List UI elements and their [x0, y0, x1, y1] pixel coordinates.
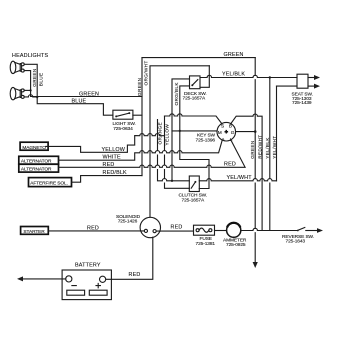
svg-text:RED: RED	[87, 225, 99, 231]
wire RED from alternator2 to key switch L diagonal	[59, 141, 245, 168]
svg-text:MAGNETO: MAGNETO	[22, 145, 46, 151]
wire BLUE: headlight1 top terminal right, down, to blue run	[24, 64, 37, 97]
svg-text:GREEN: GREEN	[32, 68, 37, 86]
wire battery negative with left arrow	[17, 276, 66, 281]
svg-text:RED: RED	[224, 161, 236, 167]
wire YEL/WHT right vertical	[276, 86, 278, 181]
headlight lamp 1	[10, 61, 24, 73]
junction headlight blue	[36, 96, 38, 98]
wire key G to GREEN right vertical	[236, 131, 256, 133]
wire seat switch lower input from YEL/WHT vertical	[277, 85, 298, 87]
wire key M diagonal to white row	[172, 130, 217, 132]
light switch LIGHT SW 725-0634	[113, 110, 133, 119]
MAGNETO box	[20, 142, 48, 151]
svg-text:YELLOW: YELLOW	[165, 124, 170, 146]
svg-text:B: B	[229, 123, 232, 129]
fuse FUSE 725-1381	[194, 225, 215, 235]
wire seat switch top output arrow	[308, 75, 320, 80]
wire GREEN: headlight1 bottom terminal right, down to green run	[24, 71, 30, 91]
svg-text:G: G	[231, 130, 235, 136]
svg-text:RED: RED	[171, 225, 183, 231]
svg-text:725-0634: 725-0634	[113, 126, 133, 132]
svg-text:725-0925: 725-0925	[226, 242, 246, 248]
wire GREEN right vertical with ground arrow	[254, 58, 256, 263]
wire ORG/WHT: deck switch loop to solenoid top	[150, 66, 209, 218]
wire: light switch output to GREEN bus vertical	[133, 114, 142, 116]
wire: headlight2 bottom terminal, hop over green, join blue vertical	[24, 95, 37, 97]
svg-text:725-1381: 725-1381	[196, 241, 216, 247]
ammeter AMMETER 725-0925	[227, 223, 241, 238]
wire YEL/WHT from clutch switch right to right bus	[199, 179, 276, 181]
svg-text:RED: RED	[129, 272, 141, 278]
svg-text:HEADLIGHTS: HEADLIGHTS	[12, 53, 48, 59]
wire: headlight2 top terminal to green vertical	[24, 89, 30, 91]
svg-text:725-1396: 725-1396	[196, 137, 216, 143]
svg-text:RED/WHT: RED/WHT	[257, 134, 262, 158]
solenoid SOLENOID 725-1426	[140, 217, 160, 237]
junction headlight green	[30, 89, 32, 91]
svg-text:ORG/WHT: ORG/WHT	[144, 60, 149, 85]
svg-text:BLUE: BLUE	[72, 99, 87, 105]
ALTERNATOR box 2	[19, 164, 59, 172]
starter STARTER box	[21, 227, 49, 235]
svg-text:AFTERFIRE SOL.: AFTERFIRE SOL.	[30, 181, 68, 187]
svg-text:BATTERY: BATTERY	[75, 262, 101, 268]
svg-text:L: L	[230, 137, 233, 143]
svg-text:YEL/BLK: YEL/BLK	[222, 72, 245, 78]
wire YEL/BLK right vertical to reverse switch	[270, 78, 294, 231]
wire seat switch lower output arrow	[308, 84, 320, 89]
wire key B to RED/WHT vertical	[231, 114, 262, 231]
deck switch DECK SW. 725-1657A	[190, 76, 201, 89]
junction ORG/BLK on clutch wire	[171, 180, 173, 182]
svg-text:GREEN: GREEN	[79, 91, 99, 97]
wire YEL/BLK from deck switch to seat switch	[200, 75, 297, 77]
svg-text:GREEN: GREEN	[250, 140, 255, 158]
svg-text:S: S	[221, 124, 224, 130]
wire deck switch left-bottom to A riser	[180, 86, 209, 189]
svg-text:ORANGE: ORANGE	[157, 122, 162, 144]
wire RED starter to solenoid	[49, 230, 141, 232]
wire deck switch left-top to ORG/BLK vertical	[172, 79, 190, 181]
seat switch SEAT SW. 725-1303 725-1439	[297, 74, 308, 88]
junction YEL/BLK branch	[269, 76, 271, 78]
svg-text:725-1439: 725-1439	[292, 100, 312, 106]
clutch switch CLUTCH SW. 725-1657A	[189, 176, 199, 192]
wire YELLOW vertical to clutch bottom-left	[165, 116, 190, 188]
wire GREEN run: from green vertical to left GREEN bus vertical	[31, 90, 142, 96]
svg-text:WHITE: WHITE	[103, 154, 121, 160]
wire key S to ORG/BLK vertical	[165, 114, 222, 124]
headlight lamp 2	[10, 87, 24, 99]
svg-text:725-1657A: 725-1657A	[182, 198, 205, 204]
wire BLUE run: from blue vertical right then down to light switch	[37, 97, 113, 115]
key switch KEY SW 725-1396	[217, 122, 236, 143]
svg-text:GREEN: GREEN	[137, 78, 142, 96]
reverse switch REVERSE SW. 725-1643	[297, 228, 323, 233]
svg-text:GREEN: GREEN	[224, 52, 244, 58]
svg-text:BLUE: BLUE	[38, 73, 43, 87]
wire GREEN top run	[142, 57, 255, 59]
ALTERNATOR box 1	[19, 156, 59, 164]
battery BATTERY	[62, 270, 111, 300]
wire YELLOW from magneto	[46, 134, 165, 153]
svg-text:YEL/WHT: YEL/WHT	[227, 175, 253, 181]
wire RED solenoid to fuse	[160, 230, 193, 232]
svg-text:725-1657A: 725-1657A	[183, 96, 206, 102]
wire ORANGE vertical to clutch switch left	[158, 120, 190, 181]
wire solenoid bottom to battery positive	[106, 237, 153, 279]
wire deck switch right-bottom loop riser	[200, 66, 209, 88]
wire GREEN left bus vertical	[141, 58, 143, 176]
svg-text:RED: RED	[103, 162, 115, 168]
svg-text:ORG/BLK: ORG/BLK	[174, 82, 179, 106]
svg-text:YELLOW: YELLOW	[102, 147, 126, 153]
junction key G on green vertical	[254, 130, 257, 133]
svg-text:725-1643: 725-1643	[286, 239, 306, 245]
wire ammeter to reverse switch with hop over green	[241, 228, 297, 230]
junction key M on riser	[179, 130, 181, 132]
svg-text:RED/BLK: RED/BLK	[103, 170, 128, 176]
ground arrow down	[253, 262, 258, 268]
svg-text:ALTERNATOR: ALTERNATOR	[21, 167, 52, 173]
svg-text:M: M	[218, 130, 222, 136]
svg-text:725-1426: 725-1426	[118, 218, 138, 224]
wire RED/BLK from afterfire solenoid to green-left vertical bottom	[72, 176, 142, 183]
svg-text:STARTER: STARTER	[23, 229, 45, 235]
AFTERFIRE SOL box	[29, 178, 72, 187]
wire WHITE from alternator1 to key switch M/A row	[59, 140, 223, 160]
wire fuse to ammeter	[215, 230, 227, 232]
svg-text:YEL/WHT: YEL/WHT	[272, 136, 277, 159]
